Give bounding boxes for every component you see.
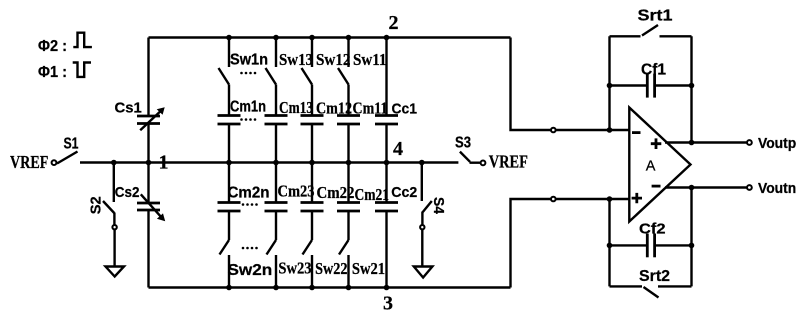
svg-text:S3: S3 bbox=[455, 135, 471, 152]
wire top feedback left vertical bbox=[608, 36, 610, 130]
capacitor Cm22 bbox=[301, 163, 355, 241]
capacitor Cm2n bbox=[218, 163, 270, 241]
node dot col1 top bbox=[226, 35, 232, 41]
switch Sw23 bbox=[267, 240, 312, 288]
op-amp negative output sign bbox=[652, 185, 661, 188]
op-amp inverting input sign bbox=[632, 131, 641, 134]
svg-text:4: 4 bbox=[393, 138, 403, 160]
wire node 2 to op-amp inverting input bbox=[511, 38, 629, 131]
svg-text:Cs2: Cs2 bbox=[115, 184, 140, 201]
switch Sw13 bbox=[266, 38, 314, 85]
svg-text:VREF: VREF bbox=[10, 152, 48, 172]
svg-text:Cc2: Cc2 bbox=[391, 184, 417, 201]
node dot col4 middle bbox=[346, 160, 352, 166]
svg-text:Cc1: Cc1 bbox=[392, 101, 418, 118]
wire Cs1 to node 1 bbox=[147, 124, 149, 163]
svg-text:Φ2 :: Φ2 : bbox=[38, 38, 67, 55]
capacitor Cf1 bbox=[610, 62, 692, 98]
svg-text:Sw2n: Sw2n bbox=[228, 262, 273, 279]
capacitor Cc2 bbox=[375, 163, 417, 288]
wire node 1 to Cs2 bbox=[147, 163, 149, 204]
switch S3 bbox=[455, 135, 480, 163]
ground below S2 bbox=[106, 267, 125, 277]
node dot col3 bottom bbox=[309, 285, 315, 291]
ellipsis bottom switch row bbox=[242, 247, 258, 250]
svg-text:S1: S1 bbox=[64, 136, 79, 153]
svg-text:VREF: VREF bbox=[489, 152, 528, 172]
terminal circle on non-inverting input wire bbox=[551, 197, 556, 202]
node dot col2 bottom bbox=[273, 285, 279, 291]
svg-text:Srt1: Srt1 bbox=[638, 8, 673, 25]
svg-text:S2: S2 bbox=[88, 196, 105, 214]
wire S2 to ground bbox=[113, 230, 115, 267]
svg-text:Sw21: Sw21 bbox=[352, 259, 385, 278]
switch Sw21 bbox=[339, 240, 385, 288]
wire S4 stub bbox=[421, 163, 423, 202]
wire left column top bbox=[147, 38, 149, 117]
switch Sw11 bbox=[338, 38, 387, 85]
wire bottom feedback right vertical bbox=[690, 188, 692, 287]
wire node 3 to op-amp non-inverting input bbox=[511, 199, 629, 288]
switch S4 bbox=[422, 197, 447, 225]
terminal circle VREF right bbox=[481, 161, 486, 166]
node dot col2 top bbox=[273, 35, 279, 41]
node junction Cf2 left bbox=[607, 243, 613, 249]
svg-text:Cf1: Cf1 bbox=[641, 62, 666, 79]
svg-text:Cm1n: Cm1n bbox=[230, 99, 266, 116]
terminal circle on inverting input wire bbox=[551, 128, 556, 133]
ellipsis bottom cap row bbox=[242, 203, 258, 206]
svg-text:S4: S4 bbox=[430, 197, 447, 215]
svg-text:Sw13: Sw13 bbox=[279, 50, 313, 69]
svg-text:Sw11: Sw11 bbox=[353, 50, 387, 69]
svg-text:2: 2 bbox=[389, 12, 399, 34]
op-amp A bbox=[629, 108, 690, 222]
svg-text:Φ1 :: Φ1 : bbox=[38, 64, 67, 81]
switch Sw2n bbox=[220, 240, 273, 288]
svg-text:Srt2: Srt2 bbox=[639, 268, 670, 285]
svg-text:3: 3 bbox=[383, 293, 393, 313]
op-amp non-inverting input sign bbox=[632, 193, 642, 203]
wire negative output bbox=[665, 186, 747, 188]
node dot col1 middle bbox=[226, 160, 232, 166]
clock waveform Phi2 bbox=[73, 33, 92, 47]
switch S1 bbox=[57, 136, 79, 164]
node junction top feedback left bbox=[607, 127, 613, 133]
svg-text:Cs1: Cs1 bbox=[115, 100, 142, 117]
capacitor Cm1n bbox=[218, 85, 267, 163]
capacitor Cf2 bbox=[610, 221, 692, 258]
node dot col5 top bbox=[384, 35, 390, 41]
node dot col4 bottom bbox=[346, 285, 352, 291]
node dot col4 top bbox=[346, 35, 352, 41]
terminal circle VREF left bbox=[52, 160, 57, 165]
switch Sw1n bbox=[219, 38, 269, 85]
contact circle S4 bbox=[420, 225, 424, 229]
svg-text:Voutn: Voutn bbox=[758, 180, 796, 197]
svg-text:Cm2n: Cm2n bbox=[228, 185, 270, 202]
clock waveform Phi1 bbox=[73, 63, 91, 77]
switch Srt1 bbox=[610, 8, 692, 37]
svg-text:Sw23: Sw23 bbox=[278, 259, 311, 278]
capacitor Cs2 (variable) bbox=[115, 184, 165, 221]
switch Sw22 bbox=[303, 240, 348, 288]
ground below S4 bbox=[414, 267, 433, 278]
wire middle bus (node 1 to node 4 to S3) bbox=[80, 161, 458, 163]
svg-text:Cf2: Cf2 bbox=[639, 221, 666, 238]
wire S2 stub bbox=[113, 163, 115, 203]
svg-text:Cm23: Cm23 bbox=[278, 182, 315, 201]
node junction Cf1 right bbox=[689, 83, 695, 89]
node dot col1 bottom bbox=[226, 285, 232, 291]
capacitor Cm23 bbox=[265, 163, 315, 241]
contact circle S2 bbox=[112, 225, 116, 229]
svg-text:Voutp: Voutp bbox=[758, 135, 796, 152]
capacitor Cm13 bbox=[265, 85, 314, 163]
svg-text:A: A bbox=[646, 159, 656, 175]
capacitor Cm11 bbox=[337, 85, 388, 163]
wire S4 to ground bbox=[421, 229, 423, 266]
capacitor Cc1 bbox=[375, 38, 417, 163]
wire Cs2 to bottom bus bbox=[147, 210, 149, 288]
node dot col2 middle bbox=[273, 160, 279, 166]
wire top feedback right vertical bbox=[690, 36, 692, 142]
wire bottom bus node 3 bbox=[149, 286, 511, 288]
terminal circle Voutn bbox=[747, 185, 752, 190]
op-amp positive output sign bbox=[651, 138, 662, 149]
node dot col3 top bbox=[309, 35, 315, 41]
svg-text:Sw12: Sw12 bbox=[316, 50, 351, 69]
svg-text:1: 1 bbox=[159, 152, 169, 174]
terminal circle Voutp bbox=[747, 140, 752, 145]
node junction output bottom bbox=[689, 185, 695, 191]
svg-text:Sw22: Sw22 bbox=[315, 259, 347, 278]
capacitor Cm12 bbox=[301, 85, 353, 163]
node dot col5 middle bbox=[384, 160, 390, 166]
ellipsis top cap row bbox=[240, 118, 256, 121]
switch Srt2 bbox=[610, 268, 692, 298]
capacitor Cm21 bbox=[337, 163, 389, 241]
ellipsis top switch row bbox=[240, 72, 256, 75]
wire top bus node 2 bbox=[149, 36, 511, 38]
node junction S4 branch bbox=[419, 160, 425, 166]
svg-text:Sw1n: Sw1n bbox=[230, 52, 268, 69]
node junction bottom feedback left bbox=[607, 196, 613, 202]
switch Sw12 bbox=[302, 38, 351, 85]
node 1 dot bbox=[146, 160, 152, 166]
node junction Cf1 left bbox=[607, 83, 613, 89]
node junction output top bbox=[689, 140, 695, 146]
wire positive output bbox=[665, 141, 747, 143]
node junction S2 branch bbox=[111, 160, 117, 166]
capacitor Cs1 (variable) bbox=[115, 100, 165, 131]
node dot col3 middle bbox=[309, 160, 315, 166]
wire bottom feedback left vertical bbox=[608, 199, 610, 286]
switch S2 bbox=[88, 196, 115, 225]
node junction Cf2 right bbox=[689, 243, 695, 249]
node dot col5 bottom bbox=[384, 285, 390, 291]
